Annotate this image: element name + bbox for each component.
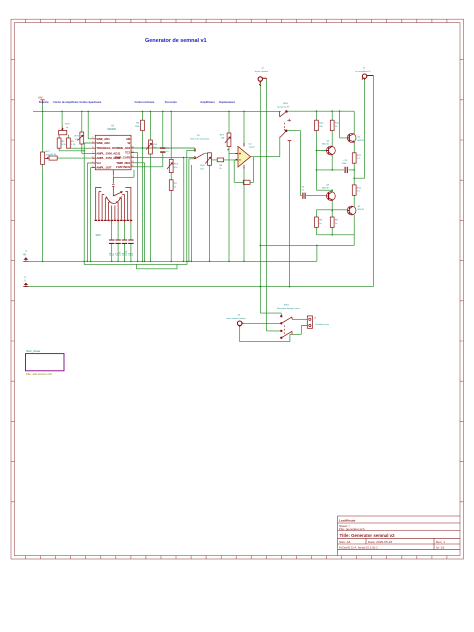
svg-text:Amplificator: Amplificator [200, 101, 215, 104]
wire R2 R3 tops [59, 135, 68, 138]
svg-text:AMPL_OUT: AMPL_OUT [96, 166, 112, 170]
svg-text:File: generator.sch: File: generator.sch [339, 527, 365, 531]
switch SW3 [280, 111, 292, 143]
wire GND return B [137, 264, 178, 268]
wire R3 bottom to pin [68, 147, 91, 149]
wire GND return A [84, 261, 187, 264]
svg-text:BD140: BD140 [322, 144, 329, 146]
wire +9V top rail [33, 110, 281, 112]
wire SW3 throw2 to C9 [287, 131, 302, 196]
wire J4 down loop [240, 327, 292, 341]
wire feedback loop [234, 157, 253, 183]
connector J1 [258, 77, 266, 86]
wire SW1 wiper link [113, 170, 134, 178]
wire pin to net col 145.7 [134, 153, 145, 262]
transistor Q4 [326, 146, 335, 155]
capacitor C1 [160, 148, 165, 152]
svg-text:Ies amplificat v2: Ies amplificat v2 [356, 70, 372, 73]
svg-text:di-reg 2a-3V: di-reg 2a-3V [277, 106, 290, 109]
wire output node to J3 [354, 170, 364, 178]
wire C9 to Q3 base [306, 195, 326, 197]
resistor R13 [352, 185, 356, 195]
svg-text:Frecventa: Frecventa [165, 101, 177, 104]
pin names U1 left [96, 137, 121, 170]
svg-text:Factor de amplificare: Factor de amplificare [54, 101, 80, 104]
resistor R12 [352, 153, 356, 163]
connector J4 [237, 321, 243, 327]
svg-text:Vcc: Vcc [96, 161, 101, 165]
svg-text:TIMR_CAP2: TIMR_CAP2 [115, 156, 131, 160]
junction dots right rail [316, 110, 318, 112]
svg-text:Generator de semnal v1: Generator de semnal v1 [145, 38, 206, 44]
rotary switch SW1 [95, 177, 133, 222]
wire RV2 column [82, 111, 92, 153]
wire RV7 column [228, 111, 230, 133]
svg-text:BD140: BD140 [357, 209, 364, 211]
svg-text:TRIANGLE_OUT: TRIANGLE_OUT [96, 146, 118, 150]
wire J1 pin2 down [266, 79, 281, 331]
wire lower GND rail [316, 227, 354, 234]
svg-text:Curba rezistoare: Curba rezistoare [135, 101, 155, 104]
transistor Q3 [326, 192, 335, 201]
svg-text:SW1: SW1 [96, 234, 102, 237]
potentiometer RV6 [205, 153, 211, 166]
wire RV1 column [42, 104, 44, 261]
connector J5 [306, 316, 312, 328]
junction dots top rail [42, 111, 44, 113]
resistor R5 [141, 120, 145, 130]
svg-text:Title: Generator semnal v2: Title: Generator semnal v2 [340, 533, 396, 538]
wire rotary cap columns [112, 223, 131, 262]
wire SW4 pole1 common to J5 [293, 318, 306, 320]
wire R11 column [331, 111, 333, 146]
resistor R6 [217, 158, 223, 162]
svg-text:Deplasament: Deplasament [219, 101, 235, 104]
resistor R8b [315, 217, 319, 227]
resistor R11 [330, 120, 334, 130]
wire SW4 pole2 common to J5 [293, 326, 306, 335]
wire RV3 wiper column [61, 111, 63, 126]
wire mid reference rail [23, 286, 373, 288]
svg-text:Simetrie: Simetrie [39, 101, 49, 104]
potentiometer RV1 [41, 152, 49, 164]
svg-text:SINE_ADJ: SINE_ADJ [117, 146, 131, 150]
wire J3 pin1 down [364, 80, 366, 178]
svg-text:AMPL_SYM_ADJ1: AMPL_SYM_ADJ1 [96, 151, 121, 155]
svg-text:LastMinute: LastMinute [339, 519, 356, 523]
wire R2 bottom [59, 148, 84, 151]
wire lower gnd link [260, 235, 354, 246]
wire R5 column [134, 111, 195, 261]
wire output to lower collector [316, 170, 332, 192]
wire opamp V- down [243, 167, 245, 261]
svg-text:Test_cheie: Test_cheie [26, 349, 41, 353]
wire R10 column [316, 111, 326, 150]
svg-text:TC1: TC1 [125, 151, 131, 155]
junction dots misc [183, 157, 185, 159]
switch SW2 [194, 148, 204, 159]
power +9V [38, 95, 45, 104]
svg-text:Date: 2025-05-18: Date: 2025-05-18 [368, 540, 392, 544]
wire SW2 common to RV6 [204, 152, 207, 154]
svg-text:Iesire semnal triunghi: Iesire semnal triunghi [226, 317, 246, 320]
pin numbers U1 [92, 137, 134, 168]
resistor R8 [243, 180, 250, 184]
wire Q5 base net [340, 111, 347, 138]
svg-text:TL071: TL071 [249, 147, 256, 149]
wire pin row 164.6 [134, 166, 163, 168]
wire output bottom line [316, 151, 354, 170]
op-amp U2 TL071 [235, 143, 251, 169]
TITLE BLOCK [338, 516, 461, 556]
wire Q3 emitter down [331, 200, 333, 217]
transistor Q2 [347, 206, 356, 215]
switch SW4 [281, 315, 294, 338]
wire RV4 column [149, 111, 151, 261]
wire Q2 emitter down [353, 215, 355, 235]
resistor R1 [49, 156, 57, 160]
wire R6 to opamp minus [211, 159, 238, 161]
wire C1 column [162, 111, 164, 166]
svg-text:File: alimentare.sch: File: alimentare.sch [26, 372, 52, 376]
svg-text:SINE_AD2: SINE_AD2 [96, 141, 110, 145]
wire RV6 bottom column [209, 165, 211, 261]
wire GND bottom rail [23, 245, 317, 261]
wire opamp out to SW3 [251, 138, 280, 157]
wire switched +9V rail right [287, 110, 354, 112]
svg-text:Id: 1/1: Id: 1/1 [436, 546, 445, 550]
svg-text:Size: A4: Size: A4 [339, 540, 351, 544]
capacitor C2 [109, 240, 114, 243]
capacitor C9 [303, 193, 305, 199]
resistor R9b [330, 217, 334, 227]
wire R1 to pin [57, 157, 92, 159]
svg-text:SW3: SW3 [283, 103, 289, 105]
wire J1 pin1 down [260, 84, 281, 317]
svg-text:XR2206: XR2206 [107, 128, 116, 131]
capacitor C5 [128, 240, 133, 243]
wire R13 top [353, 178, 355, 185]
wire net col 190.7 [189, 159, 195, 261]
IC U1 XR2206 [92, 135, 134, 174]
resistor R10 [315, 120, 319, 130]
svg-text:Ies difuzor amp: Ies difuzor amp [315, 324, 330, 326]
resistor R2 [57, 138, 61, 148]
svg-text:100n: 100n [126, 250, 128, 256]
trimmer RV4 [146, 140, 152, 154]
wire opamp V+ supply [243, 111, 245, 146]
svg-text:KiCad E.D.A. kicad (5.1.6)-1: KiCad E.D.A. kicad (5.1.6)-1 [339, 546, 378, 550]
svg-text:FX/SYNCO: FX/SYNCO [116, 165, 131, 169]
hierarchical sheet Test_cheie [26, 349, 65, 376]
wire Q5 collector [353, 111, 355, 133]
junction dots mid rail [260, 286, 262, 288]
wire SW3 T2 down to mid rail [289, 142, 291, 286]
capacitor C3 [115, 240, 120, 243]
svg-text:BD139: BD139 [357, 140, 364, 142]
pin names U1 right [115, 137, 131, 169]
svg-text:Iesire semnal: Iesire semnal [255, 70, 269, 73]
svg-text:TrC: TrC [197, 134, 201, 137]
wire SW2 upper throw [187, 150, 195, 261]
svg-text:Rev: 1: Rev: 1 [436, 540, 445, 544]
wire RV6 top to opamp plus [229, 147, 238, 262]
trimmer RV5 [167, 159, 173, 172]
connector J3 [362, 74, 373, 80]
svg-text:Treime de unda factor: Treime de unda factor [190, 137, 210, 140]
wire Vcc pin column [88, 111, 92, 138]
power GND -9V [23, 258, 28, 262]
wire pin row 157.5 to SW2 [134, 158, 195, 262]
svg-text:BD139: BD139 [322, 188, 329, 190]
resistor R7 [169, 180, 173, 191]
capacitor C4 [122, 240, 127, 243]
junction dots gnd rail [42, 261, 44, 263]
svg-text:+9V: +9V [38, 95, 43, 99]
wire RV5 R7 column [170, 111, 172, 261]
capacitor C12 [345, 167, 347, 173]
wire R13 to Q2 collector [353, 195, 355, 206]
wire IC left pin nets [84, 143, 92, 261]
trimmer RV7 [225, 133, 231, 147]
svg-text:-9V: -9V [23, 254, 27, 256]
wire J3 pin2 down [372, 76, 374, 287]
power mid 0V [23, 283, 28, 287]
svg-text:1M: 1M [221, 138, 224, 140]
trimmer RV2 [78, 132, 84, 144]
wire J4 to SW4 [244, 322, 282, 324]
wire R8b top to Q2 base [316, 210, 347, 217]
svg-text:SW4: SW4 [284, 305, 290, 307]
svg-text:Curba capacitoare: Curba capacitoare [80, 101, 102, 104]
transistor Q5 [347, 134, 356, 143]
potentiometer RV3 [59, 127, 67, 135]
wire Q4 emitter down [331, 155, 333, 170]
resistor R3 [67, 138, 71, 148]
svg-text:W: W [128, 141, 131, 145]
wire Q5 emitter to R12 [353, 142, 355, 152]
svg-text:Basculare triunghi / sinus: Basculare triunghi / sinus [277, 307, 299, 310]
